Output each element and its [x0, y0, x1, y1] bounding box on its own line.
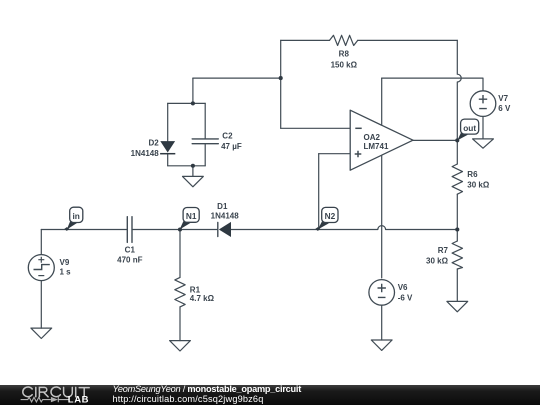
node junction dot at R6/R7 [455, 227, 459, 231]
wire C1 to N1 [132, 229, 218, 231]
svg-text:V6: V6 [398, 283, 408, 292]
ground below D2/C2 [183, 176, 204, 186]
footer bar [0, 385, 540, 405]
svg-text:1N4148: 1N4148 [211, 212, 240, 221]
flag N1 [180, 208, 200, 230]
diode D1 [220, 223, 231, 236]
wire R6 bottom lead [456, 194, 458, 229]
capacitor C2 leads [204, 103, 206, 165]
wire op-amp power vertical (V+ top, V- down to V6) [381, 78, 383, 278]
resistor R7 leads [456, 230, 458, 302]
wire ground stub below box [192, 166, 194, 177]
flag N2 [315, 207, 338, 231]
svg-text:in: in [73, 211, 80, 221]
source V9 (step source) [28, 255, 71, 281]
resistor R7 [452, 241, 462, 269]
svg-text:R7: R7 [438, 246, 449, 255]
capacitor C1 plates [127, 217, 132, 243]
footer credit line [113, 385, 302, 405]
svg-text:N2: N2 [325, 211, 336, 221]
svg-text:C1: C1 [125, 246, 136, 255]
svg-text:R6: R6 [467, 170, 478, 179]
svg-text:150 kΩ: 150 kΩ [331, 60, 358, 69]
wire R8 to right corner [358, 39, 458, 41]
svg-text:C2: C2 [222, 131, 233, 140]
wire R6 top lead [456, 140, 458, 164]
svg-text:LM741: LM741 [364, 142, 389, 151]
svg-text:V7: V7 [498, 94, 508, 103]
resistor R1 [175, 277, 185, 307]
svg-text:-6 V: -6 V [398, 293, 413, 302]
source V7 [470, 91, 511, 117]
op-amp minus sign [355, 127, 361, 129]
source V6 [369, 280, 413, 306]
resistor R8 [330, 35, 358, 45]
wire N2 vertical to plus input [318, 154, 320, 230]
ground below V6 [371, 340, 392, 350]
wire V7 bottom lead [482, 116, 484, 139]
ground below R1 [170, 341, 191, 351]
node junction dot at D2/C2 box bottom [191, 164, 195, 168]
svg-text:R1: R1 [190, 285, 201, 294]
svg-text:1 s: 1 s [60, 268, 72, 277]
wire R1 bottom lead [179, 307, 181, 341]
wire box bottom [168, 165, 206, 167]
svg-text:OA2: OA2 [364, 133, 381, 142]
wire main bottom left segment (in node) [41, 229, 127, 231]
wire R8 top left segment [281, 39, 330, 41]
svg-text:V9: V9 [60, 258, 70, 267]
resistor R6 [452, 164, 462, 194]
wire vertical left feedback (R8 left to minus input) [280, 40, 282, 128]
svg-text:D2: D2 [148, 138, 159, 147]
svg-text:30 kΩ: 30 kΩ [426, 256, 449, 265]
svg-text:30 kΩ: 30 kΩ [467, 181, 490, 190]
svg-text:1N4148: 1N4148 [131, 149, 160, 158]
wire V9 top lead [40, 230, 42, 256]
svg-text:47 µF: 47 µF [221, 142, 242, 151]
wire N1 down to R1 [179, 230, 181, 278]
svg-text:D1: D1 [217, 202, 228, 211]
node junction dot at N1 [178, 227, 182, 231]
ground below V9 [31, 328, 52, 338]
CircuitLab logo [0, 385, 110, 405]
wire stub down to D2/C2 box [192, 78, 194, 103]
diode D2 [160, 142, 175, 154]
node junction dot at D2/C2 box top [191, 101, 195, 105]
wire minus input [281, 127, 351, 129]
svg-text:LAB: LAB [68, 395, 89, 405]
capacitor C2 plates [192, 139, 218, 144]
svg-text:N1: N1 [186, 211, 197, 221]
op-amp OA2 body [350, 110, 413, 170]
svg-text:R8: R8 [339, 49, 350, 58]
wire D2 top lead [167, 103, 169, 141]
flag out [457, 119, 478, 140]
diode D1 cathode bar [217, 222, 219, 236]
wire V+ supply horizontal V7 to op-amp [382, 78, 483, 91]
wire plus input [319, 153, 351, 155]
wire D2 bottom lead [167, 154, 169, 166]
svg-text:6 V: 6 V [498, 104, 511, 113]
wire op-amp output [413, 139, 457, 141]
svg-text:470 nF: 470 nF [117, 255, 142, 264]
ground below V7 [473, 139, 494, 148]
op-amp plus sign [355, 151, 362, 158]
wire V9 bottom lead [40, 280, 42, 328]
ground below R7 [447, 301, 468, 311]
svg-text:out: out [463, 123, 476, 133]
wire V6 bottom lead [381, 305, 383, 340]
wire D1 right to N2 run with hop over V6 line [231, 226, 458, 230]
node junction dot at output [455, 138, 459, 142]
wire box top [168, 102, 206, 104]
wire C2 top to node [193, 77, 281, 79]
wire output vertical with hop over supply wire [457, 40, 461, 140]
node junction dot at R8 left / minus node [279, 76, 283, 80]
flag in [64, 207, 83, 231]
svg-text:4.7 kΩ: 4.7 kΩ [190, 294, 215, 303]
